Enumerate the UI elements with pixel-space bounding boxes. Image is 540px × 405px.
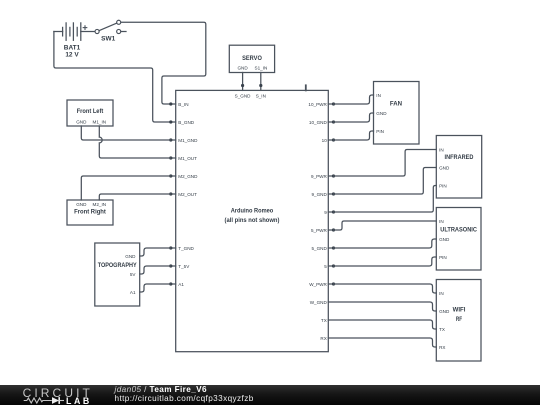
pin 9_GND xyxy=(311,192,335,197)
wire WIFI RX to RX xyxy=(328,338,436,347)
svg-text:BAT1: BAT1 xyxy=(64,45,81,52)
pin stub unlabeled top xyxy=(305,85,307,90)
svg-text:WIFI: WIFI xyxy=(453,307,466,314)
svg-text:TX: TX xyxy=(439,327,445,332)
svg-text:IN: IN xyxy=(439,147,444,152)
wire ULTRASONIC GND to 5_GND xyxy=(334,239,437,248)
wire SW1 throw to B_IN xyxy=(121,22,206,104)
svg-text:Front Right: Front Right xyxy=(74,208,107,215)
wire SERVO GND to S_GND xyxy=(242,73,244,86)
label BAT1 value 12 V xyxy=(64,45,81,59)
label SW1 xyxy=(101,35,115,42)
pin S_IN xyxy=(256,84,266,99)
battery BAT1 xyxy=(54,23,95,40)
wire FAN PIN to 10 xyxy=(334,131,374,140)
svg-text:A1: A1 xyxy=(130,290,136,295)
pin B_GND xyxy=(169,120,195,125)
wire TOPOGRAPHY 5V to T_5V xyxy=(140,266,171,274)
pin A1 xyxy=(169,282,184,287)
switch SW1 xyxy=(95,20,126,33)
svg-text:LAB: LAB xyxy=(66,395,92,405)
wire TOPOGRAPHY A1 to A1 xyxy=(140,284,171,292)
svg-text:A1: A1 xyxy=(178,282,184,287)
pin S_GND xyxy=(235,84,252,99)
wire WIFI GND to W_GND xyxy=(328,302,436,311)
svg-text:GND: GND xyxy=(76,120,87,125)
footer text xyxy=(115,385,254,403)
pin TX xyxy=(321,318,327,323)
svg-text:IN: IN xyxy=(376,93,381,98)
svg-text:RF: RF xyxy=(456,316,462,323)
pin 9 xyxy=(324,210,335,215)
wire ULTRASONIC PIN to 5 xyxy=(334,257,437,266)
wire TOPOGRAPHY GND to T_GND xyxy=(140,248,171,256)
wire FAN IN to 10_PWR xyxy=(334,95,374,104)
wire INFRARED IN to 9_PWR xyxy=(334,150,437,177)
svg-text:M2_IN: M2_IN xyxy=(93,202,107,207)
pin M1_OUT xyxy=(169,156,197,161)
diode arrow xyxy=(52,397,59,404)
svg-text:IN: IN xyxy=(439,291,444,296)
svg-text:Front Left: Front Left xyxy=(77,108,104,115)
svg-text:5: 5 xyxy=(324,264,327,269)
pin 9_PWR xyxy=(311,174,335,179)
module SERVO xyxy=(229,45,274,72)
pin T_5V xyxy=(169,264,190,269)
wire Front Right M2_IN to M2_OUT xyxy=(99,194,171,200)
svg-text:FAN: FAN xyxy=(390,100,403,107)
wire WIFI TX to TX xyxy=(328,320,436,329)
svg-text:T_5V: T_5V xyxy=(178,264,190,269)
CircuitLab logo xyxy=(0,385,110,405)
module ULTRASONIC xyxy=(436,208,481,271)
pin W_PWR xyxy=(309,282,335,287)
svg-text:S_GND: S_GND xyxy=(235,94,252,99)
wire INFRARED PIN to 9 xyxy=(334,186,437,213)
footer bar xyxy=(0,385,540,405)
svg-text:INFRARED: INFRARED xyxy=(445,154,474,161)
svg-text:GND: GND xyxy=(439,309,450,314)
pin B_IN xyxy=(169,102,188,107)
svg-text:M2_OUT: M2_OUT xyxy=(178,192,197,197)
pin 5_PWR xyxy=(311,228,335,233)
svg-text:(all pins not shown): (all pins not shown) xyxy=(225,217,280,224)
svg-text:GND: GND xyxy=(76,202,87,207)
module U1 Arduino Romeo xyxy=(176,90,329,351)
svg-text:9_GND: 9_GND xyxy=(311,192,327,197)
module WIFI RF xyxy=(436,280,481,362)
svg-text:TX: TX xyxy=(321,318,327,323)
svg-text:GND: GND xyxy=(439,165,450,170)
svg-text:B_IN: B_IN xyxy=(178,102,188,107)
svg-text:10_GND: 10_GND xyxy=(309,120,328,125)
pin 10_PWR xyxy=(308,102,335,107)
svg-text:10_PWR: 10_PWR xyxy=(308,102,327,107)
svg-text:RX: RX xyxy=(439,345,445,350)
wire SERVO S1_IN to S_IN xyxy=(260,73,262,86)
svg-text:5V: 5V xyxy=(130,272,137,277)
svg-text:SW1: SW1 xyxy=(101,35,115,42)
svg-text:GND: GND xyxy=(237,65,248,70)
svg-text:SERVO: SERVO xyxy=(242,55,262,62)
wire ULTRASONIC IN to 5_PWR xyxy=(334,221,437,230)
svg-text:9: 9 xyxy=(324,210,327,215)
module Front Right xyxy=(67,200,113,225)
svg-text:GND: GND xyxy=(376,111,387,116)
pin 10 xyxy=(322,138,335,143)
svg-text:S1_IN: S1_IN xyxy=(255,65,268,70)
svg-text:PIN: PIN xyxy=(376,129,384,134)
wire Front Right GND to M2_GND xyxy=(81,176,171,200)
pin 5 xyxy=(324,264,335,269)
pin M2_GND xyxy=(169,174,198,179)
pin T_GND xyxy=(169,246,194,251)
wire INFRARED GND to 9_GND xyxy=(334,168,437,195)
wire Front Left GND to M1_GND (with hop) xyxy=(81,126,171,140)
module FAN xyxy=(374,82,420,145)
pin W_GND xyxy=(310,300,328,305)
pin 5_GND xyxy=(311,246,335,251)
wire FAN GND to 10_GND xyxy=(334,113,374,122)
module Front Left xyxy=(67,100,113,126)
svg-text:10: 10 xyxy=(322,138,328,143)
svg-text:M1_OUT: M1_OUT xyxy=(178,156,197,161)
svg-text:9_PWR: 9_PWR xyxy=(311,174,328,179)
svg-text:GND: GND xyxy=(125,254,136,259)
pin RX xyxy=(320,336,326,341)
svg-text:TOPOGRAPHY: TOPOGRAPHY xyxy=(98,262,138,269)
wire Front Left M1_IN to M1_OUT xyxy=(99,126,171,158)
wire battery negative to B_GND xyxy=(54,32,171,123)
svg-text:W_PWR: W_PWR xyxy=(309,282,327,287)
svg-text:5_GND: 5_GND xyxy=(311,246,327,251)
pin M2_OUT xyxy=(169,192,197,197)
svg-text:M2_GND: M2_GND xyxy=(178,174,198,179)
pin 10_GND xyxy=(309,120,335,125)
resistor zigzag xyxy=(24,398,52,403)
svg-text:M1_GND: M1_GND xyxy=(178,138,198,143)
svg-text:W_GND: W_GND xyxy=(310,300,328,305)
svg-text:IN: IN xyxy=(439,219,444,224)
svg-text:GND: GND xyxy=(439,237,450,242)
svg-text:RX: RX xyxy=(320,336,326,341)
svg-text:PIN: PIN xyxy=(439,255,447,260)
module INFRARED xyxy=(436,136,481,199)
svg-text:M1_IN: M1_IN xyxy=(93,120,107,125)
svg-text:T_GND: T_GND xyxy=(178,246,194,251)
svg-text:B_GND: B_GND xyxy=(178,120,195,125)
svg-text:Arduino Romeo: Arduino Romeo xyxy=(231,208,274,215)
module TOPOGRAPHY xyxy=(95,243,140,306)
svg-text:5_PWR: 5_PWR xyxy=(311,228,328,233)
svg-text:PIN: PIN xyxy=(439,183,447,188)
svg-text:12 V: 12 V xyxy=(65,52,79,59)
pin M1_GND xyxy=(169,138,198,143)
svg-text:S_IN: S_IN xyxy=(256,94,266,99)
wire WIFI IN to W_PWR xyxy=(334,284,437,293)
svg-text:ULTRASONIC: ULTRASONIC xyxy=(440,226,477,233)
